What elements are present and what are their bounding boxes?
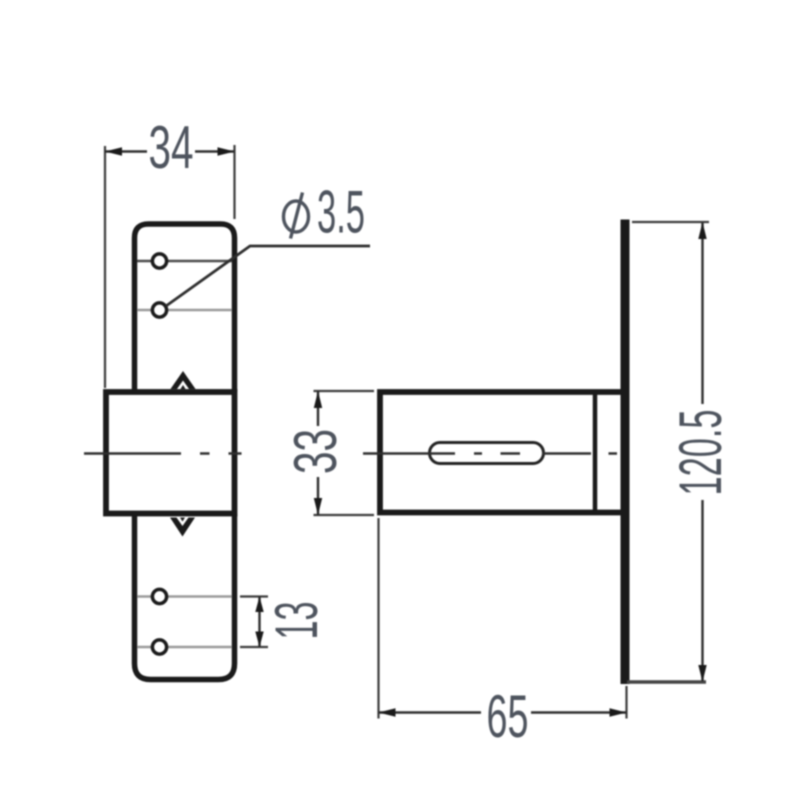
front view: lower leaf hole line B (137, 646, 232, 649)
front view: upper leaf hole line B (137, 309, 232, 312)
front view: lower leaf outline (135, 514, 235, 680)
front view: upper hole 1 (152, 254, 166, 268)
front view: barrel block (106, 392, 235, 514)
svg-text:120.5: 120.5 (667, 410, 734, 496)
front view: center line (84, 452, 242, 455)
label phi 3.5 (284, 201, 309, 232)
svg-text:3.5: 3.5 (317, 179, 365, 246)
front view: lower hole 2 (152, 640, 166, 654)
side view: barrel inner edge (593, 392, 598, 513)
dimension 33: dimension line and arrows (317, 391, 319, 426)
front view: lower hole 1 (152, 589, 166, 603)
dimension 13: dimension line and arrows (258, 597, 260, 648)
side view: slot capsule (430, 443, 544, 464)
front view: upper leaf hole line A (137, 260, 232, 262)
svg-text:34: 34 (149, 114, 194, 181)
side view: leaf plate bar (621, 220, 630, 685)
dimension 33: extension lines (314, 390, 375, 392)
front view: upper hole 2 (152, 303, 166, 317)
front view: lower leaf hole line A (137, 595, 232, 598)
side view: barrel outline (380, 392, 625, 513)
marker triangle up (171, 371, 196, 389)
dimension 13: extension lines (240, 595, 268, 597)
svg-text:65: 65 (487, 683, 529, 750)
front view: upper leaf outline (135, 224, 235, 392)
svg-text:13: 13 (263, 602, 330, 640)
dimension 34: extension lines (104, 146, 106, 388)
dimension 120.5: extension lines (632, 221, 709, 223)
marker triangle down (170, 518, 195, 537)
side view: center line (363, 452, 617, 455)
leader line for hole diameter (166, 246, 370, 306)
dimension 120.5: dimension line and arrows (701, 223, 703, 404)
dimension 65: extension lines (377, 518, 379, 719)
dimension 34: dimension line and arrows (105, 150, 147, 152)
svg-text:33: 33 (282, 429, 349, 474)
dimension 65: dimension line and arrows (379, 711, 482, 713)
